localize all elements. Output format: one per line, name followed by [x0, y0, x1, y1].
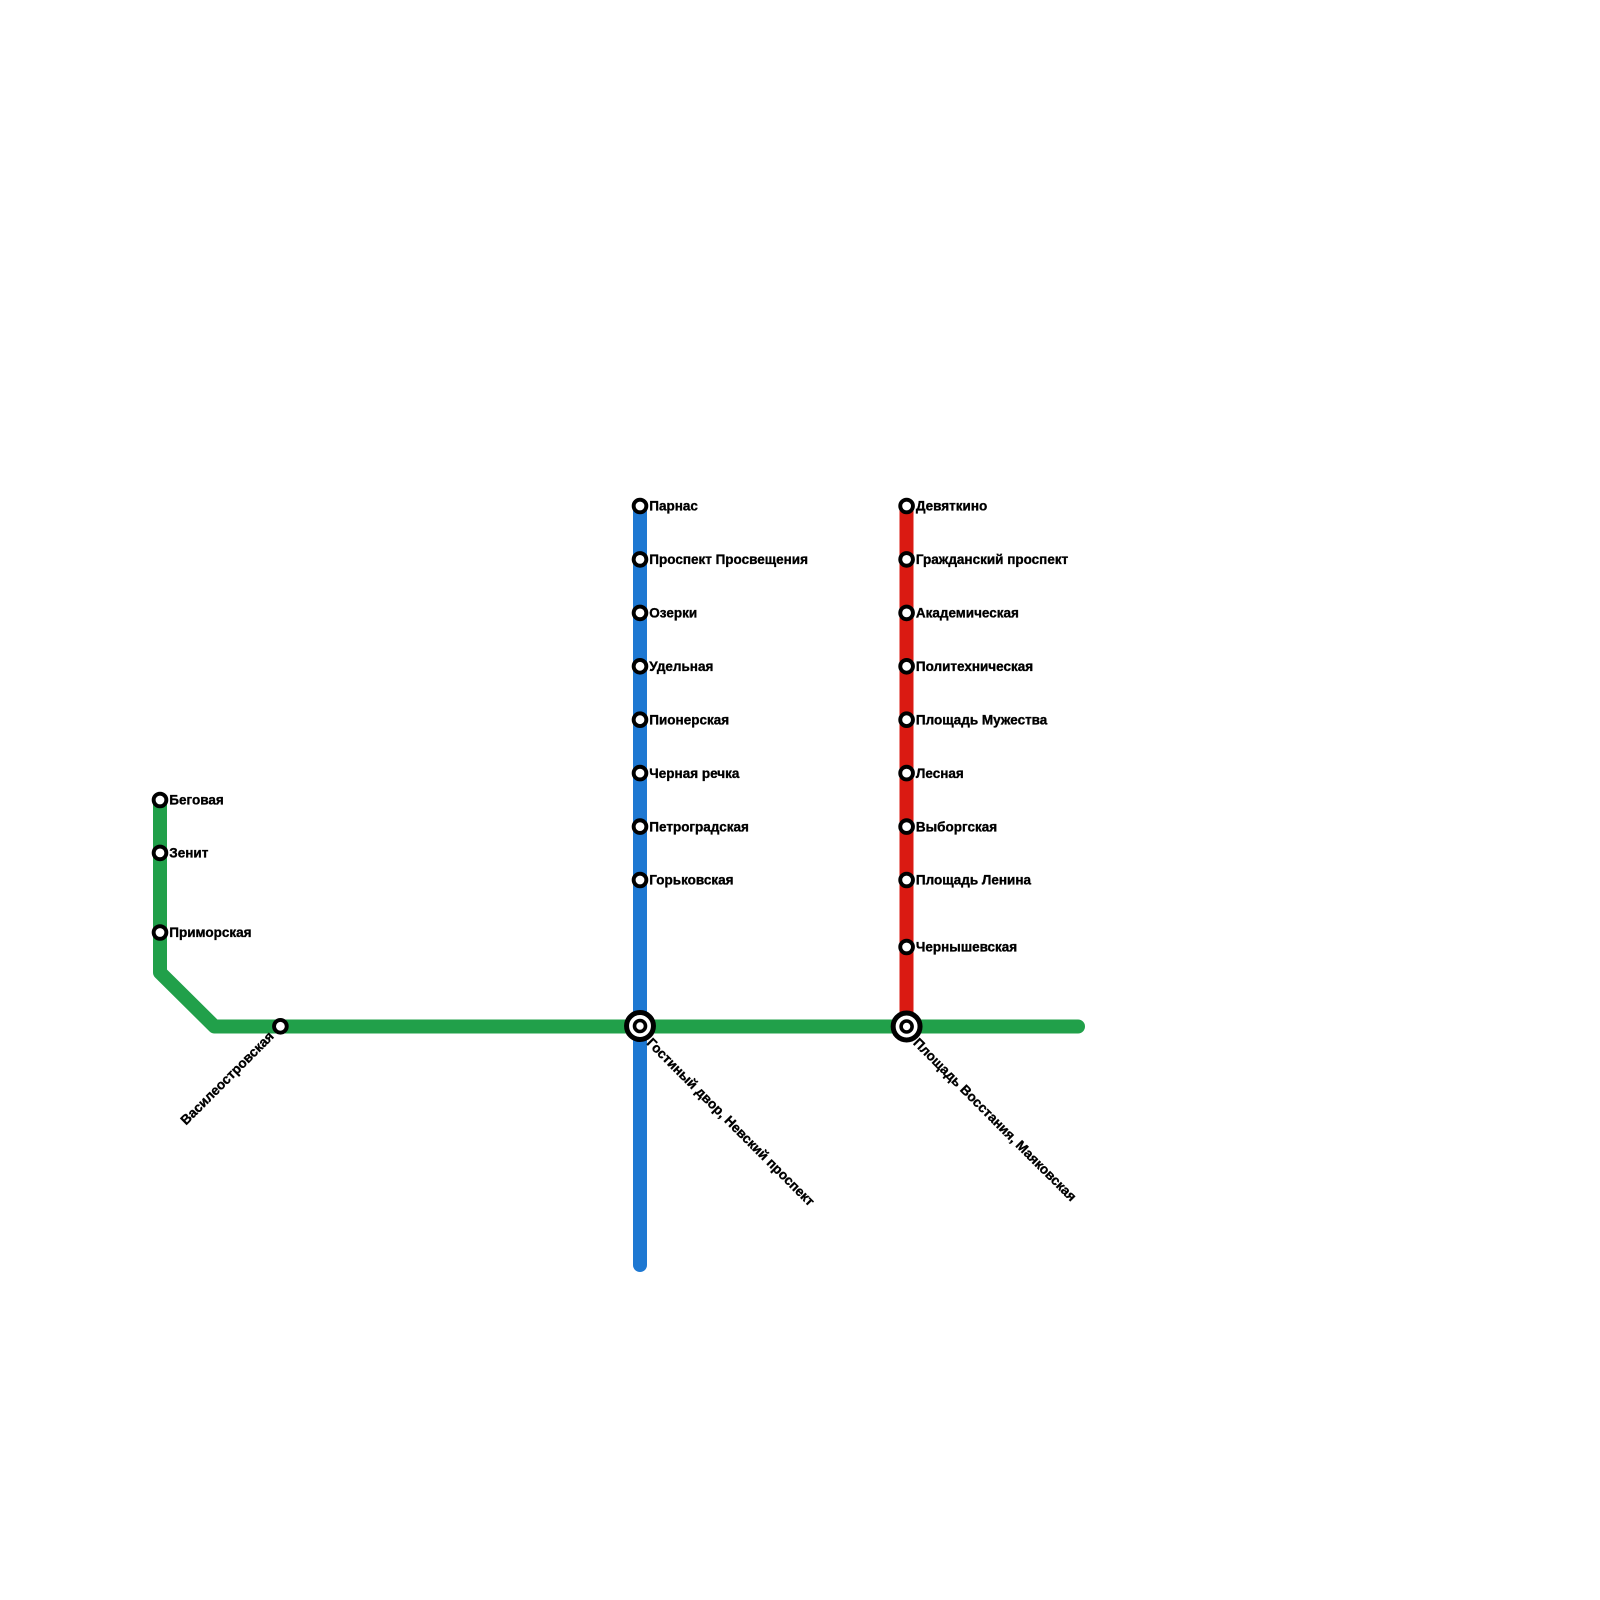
svg-text:Пионерская: Пионерская [649, 712, 729, 727]
svg-text:Удельная: Удельная [649, 659, 713, 674]
svg-text:Политехническая: Политехническая [916, 659, 1033, 674]
svg-text:Озерки: Озерки [649, 606, 697, 621]
svg-text:Выборгская: Выборгская [916, 819, 997, 834]
svg-text:Приморская: Приморская [169, 925, 251, 940]
svg-text:Горьковская: Горьковская [649, 873, 733, 888]
svg-text:Чернышевская: Чернышевская [916, 940, 1017, 955]
svg-text:Девяткино: Девяткино [916, 499, 987, 514]
svg-text:Гражданский проспект: Гражданский проспект [916, 552, 1069, 567]
svg-text:Площадь Мужества: Площадь Мужества [916, 712, 1048, 727]
svg-text:Проспект Просвещения: Проспект Просвещения [649, 552, 808, 567]
svg-text:Академическая: Академическая [916, 606, 1019, 621]
svg-text:Парнас: Парнас [649, 499, 698, 514]
svg-text:Петроградская: Петроградская [649, 819, 749, 834]
svg-text:Площадь Ленина: Площадь Ленина [916, 873, 1032, 888]
svg-text:Беговая: Беговая [169, 793, 223, 808]
svg-text:Черная речка: Черная речка [649, 766, 740, 781]
svg-text:Лесная: Лесная [916, 766, 964, 781]
svg-text:Зенит: Зенит [169, 846, 208, 861]
